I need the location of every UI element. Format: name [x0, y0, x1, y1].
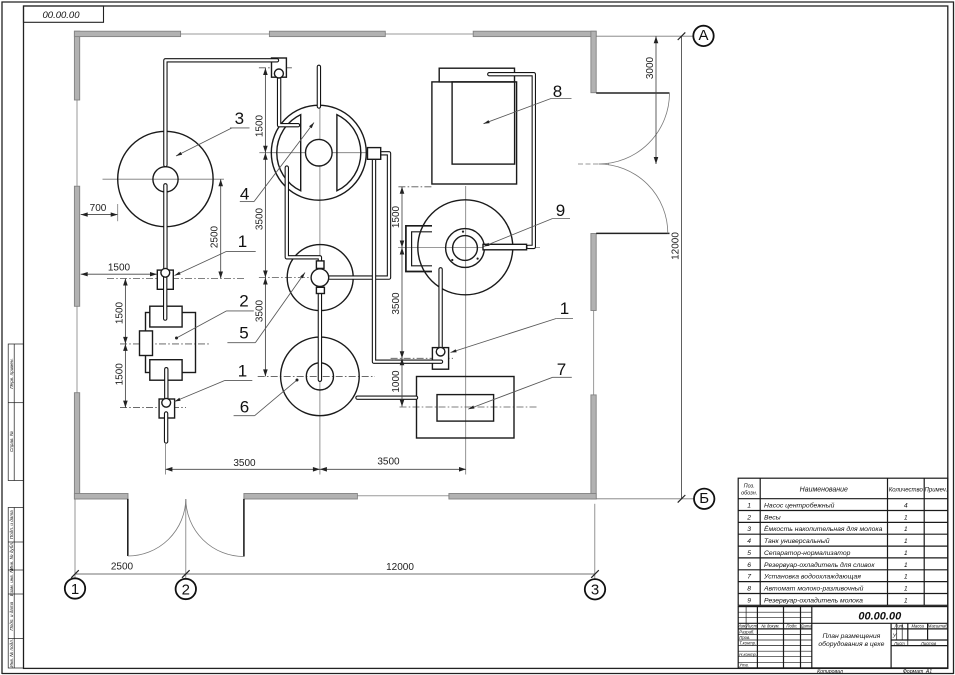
centerline scales body — [120, 343, 210, 345]
item 4 left lens segment — [277, 115, 301, 191]
svg-text:Лит.: Лит. — [893, 624, 904, 629]
axis bubble A — [693, 26, 713, 46]
svg-text:Сепаратор-нормализатор: Сепаратор-нормализатор — [764, 550, 851, 557]
dim 700 extension — [117, 204, 119, 221]
axis bubble 2 — [176, 579, 196, 599]
svg-text:Разраб.: Разраб. — [739, 630, 754, 635]
svg-text:Пров.: Пров. — [739, 635, 750, 640]
svg-text:Масса: Масса — [912, 624, 925, 629]
svg-text:А1: А1 — [925, 669, 932, 675]
svg-text:Перв. примен.: Перв. примен. — [9, 358, 14, 389]
svg-text:1: 1 — [904, 538, 908, 545]
svg-text:Насос центробежный: Насос центробежный — [764, 502, 835, 510]
svg-text:Ёмкость накопительная для моло: Ёмкость накопительная для молока — [764, 525, 883, 533]
svg-text:Н.контр.: Н.контр. — [739, 652, 757, 657]
svg-text:Автомат молоко-разливочный: Автомат молоко-разливочный — [763, 585, 864, 593]
svg-text:1: 1 — [560, 299, 569, 318]
pipe item6 to item7 — [358, 396, 417, 400]
pipe item4 flange down to pump3 — [374, 159, 441, 362]
item 8 top plate — [439, 68, 514, 82]
item 6 inner circle — [306, 363, 333, 390]
svg-text:1500: 1500 — [391, 205, 402, 228]
wall top segment 1 — [74, 31, 180, 36]
item 9 nozzle bar — [483, 244, 527, 250]
bottom door swing arc left — [128, 499, 186, 556]
item 2 scales bottom box — [150, 360, 182, 381]
pipe item4 to item5 inlet — [287, 168, 320, 263]
svg-text:3000: 3000 — [645, 56, 656, 79]
extension dash at rect8 bottom — [398, 186, 433, 188]
axis bubble B — [694, 489, 714, 509]
title block outer — [738, 607, 948, 668]
centerline items 4-5-6 vertical — [319, 106, 321, 475]
equipment list table grid — [738, 478, 948, 605]
item 8 filling machine outer rect — [432, 82, 517, 184]
svg-text:оборудования в цехе: оборудования в цехе — [818, 640, 884, 648]
svg-text:обозн.: обозн. — [741, 491, 757, 497]
svg-text:Взам. инв. №: Взам. инв. № — [9, 568, 14, 596]
svg-text:Наименование: Наименование — [800, 487, 848, 494]
svg-text:2500: 2500 — [111, 562, 134, 573]
svg-text:Подп. и дата: Подп. и дата — [9, 601, 14, 630]
svg-text:8: 8 — [747, 586, 751, 593]
svg-text:1500: 1500 — [254, 114, 265, 137]
pipe scales bottom to pump2 — [164, 369, 168, 400]
pipe item5 outlet to item4 right flange — [329, 153, 389, 277]
wall left segment 3 — [74, 393, 79, 499]
window line top wall left — [181, 33, 270, 35]
svg-text:700: 700 — [90, 203, 107, 214]
wall left segment 2 — [74, 186, 79, 306]
svg-text:3: 3 — [591, 582, 599, 599]
svg-text:1: 1 — [904, 586, 908, 593]
svg-text:3500: 3500 — [254, 299, 265, 322]
svg-text:5: 5 — [747, 550, 751, 557]
svg-text:Подп.: Подп. — [786, 624, 797, 629]
svg-text:3: 3 — [747, 526, 751, 533]
bottom axis dim line — [75, 573, 595, 575]
axis extension line 2 — [185, 499, 187, 579]
svg-text:6: 6 — [747, 562, 751, 569]
pump 3 box (near item 7) — [432, 348, 448, 370]
svg-text:1: 1 — [904, 597, 908, 604]
window line right wall — [593, 311, 595, 395]
svg-text:4: 4 — [747, 538, 751, 545]
left vertical chain dim line — [264, 68, 266, 376]
item 9 left bracket outer — [406, 226, 432, 272]
left margin stamp: upper block — [8, 344, 23, 481]
svg-text:Инв. № подл.: Инв. № подл. — [9, 639, 14, 668]
right door swing arc upper — [599, 93, 670, 164]
axis line A — [596, 35, 693, 37]
svg-text:6: 6 — [240, 398, 249, 417]
svg-text:4: 4 — [240, 185, 249, 204]
item 2 scales left box — [140, 331, 153, 356]
svg-text:1: 1 — [904, 514, 908, 521]
svg-text:Резервуар-охладитель для сливо: Резервуар-охладитель для сливок — [764, 561, 875, 569]
right door middle dash — [578, 163, 609, 165]
svg-text:Поз.: Поз. — [744, 484, 755, 490]
svg-text:Листов: Листов — [920, 641, 937, 646]
svg-text:2500: 2500 — [210, 225, 221, 248]
centerline pump top horizontal — [259, 67, 294, 69]
pump 4 circle — [274, 69, 283, 78]
extension line item3 axis — [164, 444, 166, 475]
svg-text:3500: 3500 — [391, 292, 402, 315]
title block horizontals left — [738, 611, 812, 613]
pipe item5 bottom to item6 — [318, 286, 322, 380]
right door swing arc lower — [599, 164, 668, 233]
pipe item4 top stub — [317, 67, 321, 107]
item 2 scales top box — [150, 306, 182, 327]
pump 2 circle — [162, 398, 171, 407]
svg-text:Подп. и дата: Подп. и дата — [9, 510, 14, 539]
svg-text:Формат: Формат — [903, 669, 924, 675]
svg-text:Т.контр.: Т.контр. — [739, 641, 756, 646]
wall right segment 3 — [591, 395, 596, 499]
svg-text:1500: 1500 — [114, 301, 125, 324]
bottom 3500+3500 dim line — [165, 468, 466, 470]
centerline scales chain pump2 — [120, 407, 186, 409]
axis bubble 1 — [65, 578, 85, 598]
centerline item5 horizontal — [259, 277, 371, 279]
bottom door swing arc right — [186, 499, 244, 557]
right door leaf upper — [596, 92, 669, 94]
svg-text:1: 1 — [238, 232, 247, 251]
window line bottom wall — [357, 495, 449, 497]
wall top segment 3 — [473, 31, 596, 36]
window line top wall right — [385, 33, 473, 35]
svg-text:3500: 3500 — [233, 458, 256, 469]
svg-text:Копировал: Копировал — [817, 669, 843, 675]
dim 1500 (wall to pump) line — [81, 273, 157, 275]
centerline scales chain pump1 — [107, 278, 246, 280]
svg-text:А: А — [698, 27, 708, 44]
centerline item9 horizontal — [398, 246, 540, 248]
svg-text:1500: 1500 — [108, 262, 131, 273]
wall right segment 1 — [591, 31, 596, 92]
pump 4 box (top, near item 4) — [272, 58, 287, 77]
svg-text:1: 1 — [747, 503, 751, 510]
svg-text:Инв. № дубл.: Инв. № дубл. — [9, 542, 14, 570]
svg-text:Лист: Лист — [745, 624, 757, 629]
svg-text:У: У — [892, 634, 897, 640]
item 5 inner circle — [311, 269, 329, 287]
item 9 left bracket inner — [412, 232, 432, 266]
svg-text:5: 5 — [239, 324, 248, 343]
scales chain dim line — [124, 279, 126, 408]
svg-text:1: 1 — [71, 581, 79, 598]
svg-text:9: 9 — [747, 597, 751, 604]
pipe item9 down to pump3 — [438, 269, 442, 350]
centerline pump at item7 — [391, 357, 453, 359]
dim 12000 right line — [681, 36, 683, 499]
item 6 cream cooler outer circle — [281, 337, 360, 416]
item 5 separator outer circle — [287, 245, 353, 311]
title block right section — [891, 628, 948, 630]
svg-text:12000: 12000 — [386, 562, 414, 573]
item 4 right lens segment — [337, 115, 361, 191]
svg-text:Примеч.: Примеч. — [925, 488, 948, 494]
wall bottom segment 1 — [74, 494, 128, 500]
svg-text:Дата: Дата — [800, 624, 813, 629]
svg-text:Установка водоохлаждающая: Установка водоохлаждающая — [763, 573, 861, 581]
wall bottom segment 2 — [244, 494, 358, 500]
item 9 ring — [446, 229, 485, 268]
item 3 inner circle — [153, 167, 178, 192]
svg-text:9: 9 — [556, 201, 565, 220]
item 8 inner rect — [452, 82, 514, 164]
svg-text:00.00.00: 00.00.00 — [43, 10, 81, 21]
svg-text:1: 1 — [904, 574, 908, 581]
item 4 right flange — [368, 148, 381, 160]
dim 700 line — [81, 214, 118, 216]
item 7 inner rect — [437, 395, 494, 422]
svg-text:1: 1 — [238, 362, 247, 381]
item 9 milk cooler outer circle — [418, 200, 513, 295]
svg-text:Лист: Лист — [893, 641, 905, 646]
pump 1 circle — [161, 268, 170, 277]
pipe pump4 to item4 left nozzle — [279, 76, 298, 125]
pipe item3 top to pump4 — [165, 60, 277, 165]
svg-text:4: 4 — [904, 503, 908, 510]
svg-text:Резервуар-охладитель молока: Резервуар-охладитель молока — [764, 596, 863, 604]
wall right segment 2 — [591, 234, 596, 311]
item 4 inner circle — [306, 139, 333, 166]
dim 2500 line — [220, 179, 222, 278]
svg-text:3: 3 — [235, 109, 244, 128]
dim 3000 line — [655, 36, 657, 164]
item 2 scales outer rect — [146, 313, 196, 373]
item 4 universal tank outer circle — [271, 105, 366, 200]
svg-text:3500: 3500 — [254, 207, 265, 230]
item 5 bottom flange — [316, 287, 324, 293]
svg-text:2: 2 — [746, 514, 751, 521]
svg-text:1: 1 — [904, 526, 908, 533]
item 3 storage tank outer circle — [118, 131, 213, 226]
centerline item9-item7 vertical — [465, 186, 467, 475]
svg-text:1: 1 — [904, 562, 908, 569]
svg-text:Б: Б — [699, 490, 709, 507]
item 7 water cooling unit outer rect — [417, 377, 515, 439]
centerline item6 horizontal — [258, 375, 375, 377]
pump 1 box (above scales) — [157, 270, 173, 289]
svg-text:7: 7 — [747, 574, 751, 581]
svg-text:7: 7 — [557, 360, 566, 379]
right door leaf lower — [596, 232, 669, 234]
pump 3 circle — [436, 347, 445, 356]
centerline item7 horizontal — [400, 406, 538, 408]
svg-text:Количество: Количество — [889, 488, 924, 494]
axis extension line 3 — [594, 504, 596, 579]
svg-text:План размещения: План размещения — [822, 633, 880, 640]
window line left wall upper — [76, 100, 78, 186]
pump 2 box (below scales) — [159, 399, 175, 418]
svg-text:12000: 12000 — [671, 232, 682, 260]
svg-text:1000: 1000 — [391, 370, 402, 393]
window line left wall lower — [76, 306, 78, 392]
bottom door leaf right — [243, 499, 245, 557]
item 5 top flange — [316, 261, 324, 269]
left margin stamp: lower block — [8, 508, 23, 669]
svg-text:Танк универсальный: Танк универсальный — [764, 537, 830, 545]
centerline item3 horizontal — [103, 178, 225, 180]
svg-text:1: 1 — [904, 550, 908, 557]
svg-text:00.00.00: 00.00.00 — [858, 611, 902, 623]
svg-text:№ докум.: № докум. — [761, 624, 779, 629]
right vertical chain dim line — [401, 187, 403, 407]
axis extension line 1 — [74, 499, 76, 578]
wall top segment 2 — [269, 31, 385, 36]
pipe item3 center to pump1 — [163, 185, 167, 271]
bottom door leaf left — [127, 499, 129, 556]
top-left document number box — [24, 6, 104, 22]
pipe pump1 to scales — [163, 278, 167, 319]
pipe pump2 outlet stub — [164, 414, 168, 442]
title block verticals — [745, 607, 747, 629]
item 9 inner circle — [453, 236, 478, 261]
svg-text:Весы: Весы — [764, 514, 781, 521]
svg-text:2: 2 — [239, 292, 248, 311]
svg-text:Справ. №: Справ. № — [9, 431, 14, 452]
centerline item4 horizontal — [259, 152, 389, 154]
wall left segment 1 — [74, 31, 79, 100]
pipe item8 rod to item9 nozzle — [489, 74, 534, 247]
svg-text:2: 2 — [182, 581, 190, 598]
item 9 ring marks — [462, 231, 464, 233]
svg-text:Масштаб: Масштаб — [928, 624, 948, 629]
svg-text:Изм.: Изм. — [738, 624, 747, 629]
wall bottom segment 3 — [449, 494, 596, 500]
svg-text:1500: 1500 — [114, 363, 125, 386]
axis bubble 3 — [585, 579, 605, 599]
svg-text:Утв.: Утв. — [739, 663, 749, 668]
svg-text:3500: 3500 — [377, 457, 400, 468]
axis line B — [596, 498, 694, 500]
